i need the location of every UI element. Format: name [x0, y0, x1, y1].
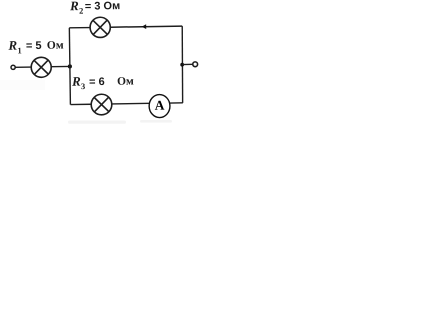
node left junction: [68, 64, 72, 68]
ammeter A: [149, 94, 170, 117]
label R2 = 3 Om: [69, 0, 120, 16]
faint scan smudge left of R1 label: [0, 80, 45, 90]
svg-text:Ом: Ом: [47, 40, 64, 52]
wire lamp R3 to ammeter: [112, 102, 150, 105]
label R3 = 6 Om: [71, 73, 134, 91]
faint scan smudge below bottom branch: [68, 120, 172, 124]
wire bottom left segment: [71, 103, 92, 105]
terminal left: [11, 65, 15, 69]
wire ammeter to right vertical: [170, 102, 183, 104]
label R1 = 5 Om: [7, 37, 64, 56]
svg-text:= 5: = 5: [26, 40, 42, 52]
svg-text:= 3 Ом: = 3 Ом: [85, 0, 121, 13]
lamp R2: [90, 17, 111, 38]
wire top left segment: [69, 27, 90, 29]
svg-text:R: R: [69, 0, 79, 13]
wire left vertical: [69, 28, 70, 105]
terminal right: [193, 62, 198, 67]
wire top right segment: [110, 26, 182, 27]
svg-text:R: R: [71, 74, 81, 89]
svg-text:Ом: Ом: [117, 76, 134, 88]
svg-text:2: 2: [79, 6, 83, 16]
lamp R1: [31, 57, 51, 77]
svg-text:3: 3: [81, 81, 85, 91]
lamp R3: [91, 94, 112, 115]
current arrow on top wire: [142, 24, 147, 29]
svg-text:= 6: = 6: [89, 76, 105, 88]
wire node to right terminal: [182, 63, 192, 65]
svg-text:1: 1: [17, 45, 21, 55]
wire main left: terminal to lamp R1: [15, 66, 31, 68]
svg-text:A: A: [155, 98, 165, 113]
svg-text:R: R: [7, 38, 17, 53]
node right junction: [180, 63, 184, 67]
wire lamp R1 to left node: [51, 65, 70, 67]
wire right vertical: [181, 26, 183, 103]
